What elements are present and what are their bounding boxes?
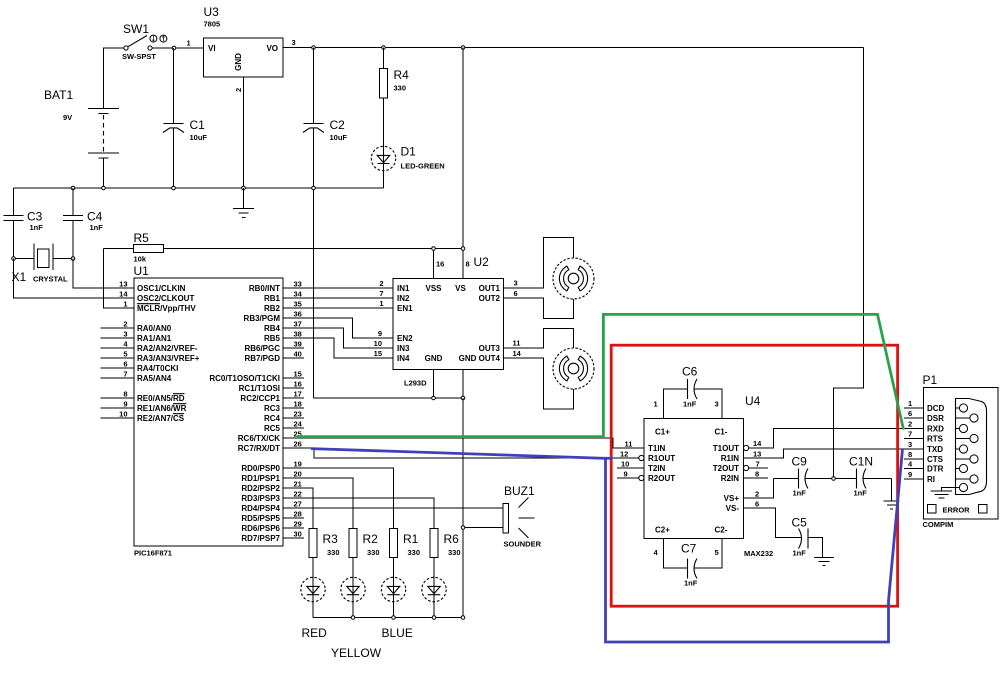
LED under R6 bbox=[422, 577, 446, 617]
LED under R2 bbox=[341, 577, 365, 617]
wire U3 VO pin 3 : +5V rail bbox=[283, 38, 864, 48]
svg-text:7: 7 bbox=[379, 289, 383, 298]
wire switch to U3 VI (pin 1) bbox=[152, 39, 204, 49]
svg-text:RB2: RB2 bbox=[264, 304, 281, 313]
svg-text:16: 16 bbox=[294, 380, 302, 389]
svg-text:RC5: RC5 bbox=[264, 424, 281, 433]
pin stubs T2OUT R2IN bbox=[744, 460, 769, 479]
svg-text:RC7/RX/DT: RC7/RX/DT bbox=[238, 444, 280, 453]
wire RD0 to R1 bbox=[283, 468, 394, 529]
svg-text:330: 330 bbox=[394, 84, 407, 93]
svg-text:10k: 10k bbox=[134, 255, 147, 264]
svg-text:RA4/T0CKI: RA4/T0CKI bbox=[137, 364, 178, 373]
svg-text:C4: C4 bbox=[87, 210, 103, 224]
svg-text:R3: R3 bbox=[323, 532, 339, 546]
svg-text:EN1: EN1 bbox=[397, 304, 413, 313]
svg-text:RA3/AN3/VREF+: RA3/AN3/VREF+ bbox=[137, 354, 200, 363]
svg-text:RB1: RB1 bbox=[264, 294, 281, 303]
svg-text:RTS: RTS bbox=[927, 435, 944, 444]
svg-text:1nF: 1nF bbox=[684, 579, 698, 588]
svg-text:GND: GND bbox=[234, 53, 243, 71]
svg-text:C1N: C1N bbox=[849, 455, 873, 469]
svg-text:C1+: C1+ bbox=[655, 428, 670, 437]
resistor R4 330 bbox=[379, 48, 409, 147]
svg-text:11: 11 bbox=[625, 440, 633, 449]
svg-text:U1: U1 bbox=[134, 264, 150, 278]
svg-text:RC2/CCP1: RC2/CCP1 bbox=[240, 394, 280, 403]
mcu U1 PIC16F871 bbox=[119, 264, 303, 558]
svg-text:RC1/T1OSI: RC1/T1OSI bbox=[239, 384, 280, 393]
GND rail bbox=[14, 187, 384, 189]
svg-text:30: 30 bbox=[294, 530, 302, 539]
svg-text:13: 13 bbox=[753, 450, 761, 459]
red highlight box around MAX232 bbox=[611, 345, 897, 606]
svg-text:U4: U4 bbox=[745, 394, 761, 408]
svg-text:38: 38 bbox=[294, 330, 302, 339]
svg-text:VSS: VSS bbox=[425, 284, 442, 293]
wire R5 left to MCLR pin 1 bbox=[104, 249, 135, 309]
svg-text:RA1/AN1: RA1/AN1 bbox=[137, 334, 172, 343]
green highlight wire TX bbox=[297, 314, 904, 436]
svg-text:RA0/AN0: RA0/AN0 bbox=[137, 324, 172, 333]
svg-text:YELLOW: YELLOW bbox=[331, 646, 382, 660]
resistor R3 330 bbox=[309, 529, 340, 578]
svg-text:3: 3 bbox=[123, 330, 127, 339]
pin numbers U4 left bbox=[620, 440, 632, 479]
svg-text:RD7/PSP7: RD7/PSP7 bbox=[241, 534, 280, 543]
svg-text:RC0/T1OSO/T1CKI: RC0/T1OSO/T1CKI bbox=[209, 374, 280, 383]
svg-text:11: 11 bbox=[513, 339, 521, 348]
svg-text:EN2: EN2 bbox=[397, 334, 413, 343]
wire RB1 to U2 IN2 bbox=[283, 297, 393, 299]
svg-text:RB6/PGC: RB6/PGC bbox=[244, 344, 280, 353]
svg-text:7: 7 bbox=[123, 370, 127, 379]
svg-text:OUT1: OUT1 bbox=[479, 284, 501, 293]
svg-text:T1IN: T1IN bbox=[648, 444, 666, 453]
svg-text:SW1: SW1 bbox=[123, 22, 149, 36]
svg-text:19: 19 bbox=[294, 460, 302, 469]
wire gnd column down to LED rail bbox=[462, 398, 464, 618]
ground symbol inside P1 bbox=[931, 488, 956, 499]
motor M1 bbox=[553, 258, 594, 299]
svg-text:L293D: L293D bbox=[404, 379, 427, 388]
LED under R3 bbox=[301, 577, 325, 617]
svg-text:1nF: 1nF bbox=[30, 223, 44, 232]
wire VS- pin 6 to C5 bbox=[744, 500, 802, 538]
svg-text:C9: C9 bbox=[792, 455, 808, 469]
svg-text:C3: C3 bbox=[27, 210, 43, 224]
svg-text:330: 330 bbox=[448, 548, 461, 557]
svg-text:T2OUT: T2OUT bbox=[713, 464, 739, 473]
wire OUT1 pin 3 to motor1 top bbox=[504, 238, 574, 289]
svg-text:R2: R2 bbox=[363, 532, 379, 546]
svg-text:28: 28 bbox=[294, 510, 302, 519]
svg-text:RD4/PSP4: RD4/PSP4 bbox=[241, 504, 280, 513]
svg-text:1nF: 1nF bbox=[793, 489, 807, 498]
svg-text:13: 13 bbox=[119, 280, 127, 289]
pin bubbles U4 bbox=[639, 445, 749, 480]
svg-text:RI: RI bbox=[927, 475, 935, 484]
capacitor C1N 1nF bbox=[849, 455, 892, 498]
svg-text:RA2/AN2/VREF-: RA2/AN2/VREF- bbox=[137, 344, 198, 353]
svg-text:BUZ1: BUZ1 bbox=[504, 484, 535, 498]
node junctions LED rail bbox=[351, 616, 465, 620]
svg-text:5: 5 bbox=[123, 350, 127, 359]
ic U4 MAX232 bbox=[644, 394, 773, 558]
svg-text:1nF: 1nF bbox=[854, 489, 868, 498]
svg-text:BLUE: BLUE bbox=[382, 626, 413, 640]
wire RD2 to R3 bbox=[283, 488, 313, 529]
resistor R2 330 bbox=[349, 529, 380, 578]
svg-text:3: 3 bbox=[514, 279, 518, 288]
svg-text:9: 9 bbox=[908, 470, 912, 479]
svg-text:C6: C6 bbox=[682, 365, 698, 379]
crystal X1 bbox=[12, 244, 74, 285]
svg-text:7: 7 bbox=[756, 460, 760, 469]
svg-text:33: 33 bbox=[294, 280, 302, 289]
svg-text:OUT3: OUT3 bbox=[479, 344, 501, 353]
svg-text:C1-: C1- bbox=[715, 428, 728, 437]
wire RB5 to U2 IN4 bbox=[283, 338, 393, 358]
svg-text:C7: C7 bbox=[681, 542, 697, 556]
wire RB0 to U2 IN1 bbox=[283, 287, 393, 289]
svg-text:RE0/AN5/RD: RE0/AN5/RD bbox=[137, 394, 185, 403]
svg-text:3: 3 bbox=[908, 440, 912, 449]
svg-text:RB4: RB4 bbox=[264, 324, 281, 333]
capacitor C6 1nF bbox=[654, 365, 723, 419]
DB9 pin circles bbox=[956, 404, 979, 492]
svg-text:10uF: 10uF bbox=[190, 133, 208, 142]
capacitor C4 1nF bbox=[63, 188, 103, 259]
svg-text:SW-SPST: SW-SPST bbox=[122, 52, 156, 61]
svg-text:2: 2 bbox=[755, 490, 759, 499]
svg-text:R1OUT: R1OUT bbox=[648, 454, 675, 463]
svg-text:VS+: VS+ bbox=[724, 494, 740, 503]
wire RB3 to U2 EN2 bbox=[283, 318, 393, 338]
ground symbol under C5 bbox=[814, 558, 834, 566]
svg-text:RC3: RC3 bbox=[264, 404, 281, 413]
svg-text:8: 8 bbox=[123, 390, 127, 399]
svg-text:22: 22 bbox=[294, 490, 302, 499]
svg-text:2: 2 bbox=[234, 88, 243, 92]
svg-text:GND: GND bbox=[425, 354, 443, 363]
svg-text:RE2/AN7/CS: RE2/AN7/CS bbox=[137, 414, 185, 423]
svg-text:U3: U3 bbox=[204, 5, 220, 19]
wire RB2 to U2 EN1 bbox=[283, 307, 393, 309]
svg-text:ERROR: ERROR bbox=[943, 506, 971, 515]
wire RD1 to R2 bbox=[283, 478, 353, 529]
wire RD3 to R6 bbox=[283, 498, 434, 529]
svg-text:LED-GREEN: LED-GREEN bbox=[401, 162, 445, 171]
svg-text:MCLR/Vpp/THV: MCLR/Vpp/THV bbox=[137, 304, 196, 313]
svg-text:MAX232: MAX232 bbox=[744, 549, 773, 558]
svg-text:RD3/PSP3: RD3/PSP3 bbox=[241, 494, 280, 503]
svg-text:R2IN: R2IN bbox=[721, 474, 739, 483]
svg-text:R6: R6 bbox=[444, 532, 460, 546]
svg-text:7: 7 bbox=[908, 430, 912, 439]
svg-text:1: 1 bbox=[908, 399, 912, 408]
resistor R5 10k bbox=[104, 231, 164, 264]
svg-text:14: 14 bbox=[119, 290, 128, 299]
svg-text:40: 40 bbox=[294, 350, 302, 359]
svg-text:16: 16 bbox=[436, 260, 444, 269]
svg-text:8: 8 bbox=[466, 260, 470, 269]
svg-text:37: 37 bbox=[294, 320, 302, 329]
wire VS pin 8 from +5V rail bbox=[462, 48, 464, 279]
svg-text:OUT4: OUT4 bbox=[479, 354, 501, 363]
ground symbol under U3 bbox=[233, 188, 254, 218]
svg-text:RC6/TX/CK: RC6/TX/CK bbox=[238, 434, 280, 443]
svg-text:VI: VI bbox=[208, 44, 216, 53]
switch SW1 bbox=[122, 22, 167, 61]
svg-text:IN3: IN3 bbox=[397, 344, 410, 353]
svg-text:9: 9 bbox=[123, 400, 127, 409]
capacitor C7 1nF bbox=[654, 539, 723, 588]
svg-text:RA5/AN4: RA5/AN4 bbox=[137, 374, 172, 383]
svg-text:10: 10 bbox=[374, 339, 382, 348]
svg-text:RC4: RC4 bbox=[264, 414, 281, 423]
svg-text:IN1: IN1 bbox=[397, 284, 410, 293]
svg-text:RB3/PGM: RB3/PGM bbox=[244, 314, 281, 323]
wire +5V rail drop right side bbox=[834, 48, 864, 479]
motor M2 bbox=[553, 348, 594, 389]
svg-text:2: 2 bbox=[908, 420, 912, 429]
svg-text:VS-: VS- bbox=[726, 504, 740, 513]
svg-text:17: 17 bbox=[294, 390, 302, 399]
svg-text:R4: R4 bbox=[394, 68, 410, 82]
wire VSS pin 16 bbox=[433, 249, 435, 279]
svg-text:RED: RED bbox=[302, 626, 328, 640]
svg-text:D1: D1 bbox=[401, 145, 417, 159]
svg-text:26: 26 bbox=[294, 440, 302, 449]
connector P1 COMPIM bbox=[908, 373, 998, 529]
wire RB4 to U2 IN3 bbox=[283, 328, 393, 348]
wire R5 right to +5V branch bbox=[164, 248, 464, 250]
svg-text:6: 6 bbox=[514, 289, 518, 298]
wire RC6/TX to U4 T1IN bbox=[283, 438, 644, 448]
svg-text:36: 36 bbox=[294, 310, 302, 319]
svg-text:RB0/INT: RB0/INT bbox=[249, 284, 280, 293]
svg-text:6: 6 bbox=[123, 360, 127, 369]
capacitor C9 1nF bbox=[774, 455, 857, 498]
svg-text:1nF: 1nF bbox=[90, 223, 104, 232]
wire T1OUT pin 14 to P1 RXD bbox=[749, 429, 924, 449]
wire D1 cathode to GND rail bbox=[383, 171, 385, 189]
svg-text:R2OUT: R2OUT bbox=[648, 474, 675, 483]
wire RD4 to buzzer bbox=[283, 507, 503, 509]
wire OUT4 pin 14 to motor2 bottom bbox=[504, 349, 574, 409]
svg-text:RXD: RXD bbox=[927, 425, 944, 434]
svg-text:OUT2: OUT2 bbox=[479, 294, 501, 303]
capacitor C2 10uF bbox=[303, 48, 347, 143]
pin stubs U1 right unconnected bbox=[283, 348, 304, 538]
DB9 body bbox=[956, 399, 987, 495]
node junctions on +5V rail bbox=[312, 46, 465, 50]
svg-text:39: 39 bbox=[294, 340, 302, 349]
pin stubs U1 left unconnected bbox=[101, 328, 135, 418]
battery BAT1 9V bbox=[44, 88, 119, 158]
svg-text:9: 9 bbox=[378, 329, 382, 338]
svg-text:BAT1: BAT1 bbox=[44, 88, 73, 102]
wire U3 GND pin 2 down bbox=[234, 77, 244, 188]
svg-text:2: 2 bbox=[379, 279, 383, 288]
svg-text:10: 10 bbox=[119, 410, 127, 419]
svg-text:2: 2 bbox=[123, 320, 127, 329]
svg-text:RB5: RB5 bbox=[264, 334, 281, 343]
svg-text:C2+: C2+ bbox=[655, 526, 670, 535]
capacitor C5 1nF bbox=[792, 516, 823, 558]
svg-text:20: 20 bbox=[294, 470, 302, 479]
svg-text:C1: C1 bbox=[190, 118, 206, 132]
svg-text:RD2/PSP2: RD2/PSP2 bbox=[241, 484, 280, 493]
svg-text:VO: VO bbox=[266, 44, 278, 53]
svg-text:R5: R5 bbox=[134, 231, 150, 245]
pin stubs P1 bbox=[904, 408, 924, 479]
svg-text:1: 1 bbox=[187, 39, 191, 48]
svg-text:DSR: DSR bbox=[927, 414, 944, 423]
LED D1 LED-GREEN bbox=[371, 145, 444, 171]
svg-text:RD1/PSP1: RD1/PSP1 bbox=[241, 474, 280, 483]
node junctions on GND rail bbox=[71, 186, 315, 190]
svg-text:5: 5 bbox=[715, 548, 719, 557]
node junction switch/C1 bbox=[172, 46, 176, 50]
svg-text:GND: GND bbox=[459, 354, 477, 363]
svg-text:7805: 7805 bbox=[204, 20, 221, 29]
svg-text:9: 9 bbox=[624, 470, 628, 479]
svg-text:330: 330 bbox=[327, 548, 340, 557]
wire battery- to GND rail bbox=[103, 158, 105, 188]
LED under R1 bbox=[381, 577, 405, 617]
resistor R6 330 bbox=[430, 529, 461, 578]
buzzer BUZ1 SOUNDER bbox=[461, 484, 541, 549]
wire C2 bottom / GND column down to U2 gnd rail bbox=[313, 129, 315, 399]
svg-text:18: 18 bbox=[294, 400, 302, 409]
svg-text:OSC1/CLKIN: OSC1/CLKIN bbox=[137, 284, 186, 293]
svg-text:RD0/PSP0: RD0/PSP0 bbox=[241, 464, 280, 473]
svg-text:1: 1 bbox=[654, 400, 658, 409]
svg-text:C5: C5 bbox=[792, 516, 808, 530]
svg-text:CRYSTAL: CRYSTAL bbox=[33, 275, 68, 284]
svg-text:TXD: TXD bbox=[927, 445, 943, 454]
svg-text:1: 1 bbox=[379, 299, 383, 308]
svg-text:14: 14 bbox=[753, 439, 762, 448]
svg-text:330: 330 bbox=[408, 548, 421, 557]
ERROR indicators bbox=[928, 505, 988, 515]
svg-text:IN2: IN2 bbox=[397, 294, 410, 303]
svg-text:P1: P1 bbox=[923, 373, 938, 387]
wire OUT3 pin 11 to motor2 top bbox=[504, 329, 574, 349]
svg-text:3: 3 bbox=[715, 400, 719, 409]
svg-text:COMPIM: COMPIM bbox=[923, 520, 954, 529]
svg-text:29: 29 bbox=[294, 520, 302, 529]
wire battery+ to switch bbox=[104, 48, 125, 109]
wire VS+ pin 2 bbox=[744, 479, 774, 499]
svg-text:10: 10 bbox=[621, 460, 629, 469]
resistor R1 330 bbox=[389, 529, 420, 578]
svg-text:330: 330 bbox=[367, 548, 380, 557]
svg-text:SOUNDER: SOUNDER bbox=[504, 540, 542, 549]
svg-text:IN4: IN4 bbox=[397, 354, 410, 363]
blue highlight wire RX bbox=[311, 449, 903, 642]
svg-text:21: 21 bbox=[294, 480, 302, 489]
ground symbol right of C1N bbox=[884, 479, 900, 510]
svg-text:VS: VS bbox=[455, 284, 466, 293]
node junction C9/C1N/+5V bbox=[832, 477, 836, 481]
LED cathode rail bbox=[313, 617, 463, 619]
svg-text:PIC16F871: PIC16F871 bbox=[134, 549, 172, 558]
svg-text:14: 14 bbox=[513, 349, 522, 358]
svg-text:6: 6 bbox=[755, 500, 759, 509]
svg-text:10uF: 10uF bbox=[330, 133, 348, 142]
svg-text:DCD: DCD bbox=[927, 404, 945, 413]
svg-text:6: 6 bbox=[908, 409, 912, 418]
svg-text:CTS: CTS bbox=[927, 455, 944, 464]
node junctions U2 gnd rail bbox=[432, 396, 465, 400]
regulator U3 7805 bbox=[204, 5, 284, 77]
svg-text:1: 1 bbox=[123, 300, 127, 309]
svg-text:27: 27 bbox=[294, 500, 302, 509]
capacitor C1 10uF bbox=[163, 48, 207, 188]
svg-text:RE1/AN6/WR: RE1/AN6/WR bbox=[137, 404, 187, 413]
svg-text:C2-: C2- bbox=[715, 526, 728, 535]
wire U2 GND pins to gnd rail bbox=[314, 370, 464, 399]
svg-text:RD6/PSP6: RD6/PSP6 bbox=[241, 524, 280, 533]
svg-text:T1OUT: T1OUT bbox=[713, 444, 739, 453]
node junctions R5/U2 supply row bbox=[432, 247, 465, 251]
driver U2 L293D bbox=[374, 255, 504, 388]
svg-text:35: 35 bbox=[294, 300, 302, 309]
svg-text:23: 23 bbox=[294, 410, 302, 419]
svg-text:8: 8 bbox=[755, 470, 759, 479]
svg-text:24: 24 bbox=[294, 420, 303, 429]
wire OUT2 pin 6 to motor1 bottom bbox=[504, 289, 574, 319]
wire R1IN pin 13 to P1 TXD bbox=[744, 449, 924, 459]
svg-text:34: 34 bbox=[294, 290, 303, 299]
svg-text:OSC2/CLKOUT: OSC2/CLKOUT bbox=[137, 294, 194, 303]
svg-text:15: 15 bbox=[374, 349, 382, 358]
svg-text:15: 15 bbox=[294, 370, 302, 379]
svg-text:RB7/PGD: RB7/PGD bbox=[244, 354, 280, 363]
svg-text:12: 12 bbox=[620, 450, 628, 459]
wire RC7/RX to U4 R1OUT bbox=[283, 448, 639, 458]
svg-text:RD5/PSP5: RD5/PSP5 bbox=[241, 514, 280, 523]
svg-text:1nF: 1nF bbox=[683, 400, 697, 409]
pin stubs T2IN R2OUT bbox=[617, 468, 644, 478]
svg-text:1nF: 1nF bbox=[793, 549, 807, 558]
svg-text:9V: 9V bbox=[63, 113, 72, 122]
svg-text:R1IN: R1IN bbox=[721, 454, 739, 463]
svg-text:U2: U2 bbox=[474, 255, 490, 269]
svg-text:3: 3 bbox=[292, 38, 296, 47]
svg-text:C2: C2 bbox=[330, 118, 346, 132]
svg-text:DTR: DTR bbox=[927, 465, 944, 474]
svg-text:R1: R1 bbox=[403, 532, 419, 546]
node junctions crystal row bbox=[12, 257, 75, 261]
svg-text:8: 8 bbox=[908, 450, 912, 459]
wire crystal left to OSC2 pin 14 bbox=[14, 259, 135, 299]
svg-text:T2IN: T2IN bbox=[648, 464, 666, 473]
wire crystal right to OSC1 pin 13 bbox=[73, 259, 134, 289]
capacitor C3 1nF bbox=[4, 188, 44, 259]
